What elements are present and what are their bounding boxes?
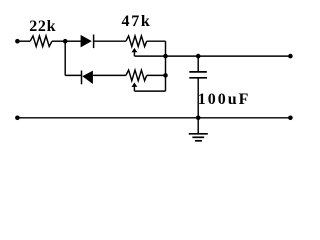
wire R2 wiper to node B xyxy=(134,55,165,57)
capacitor C1 top plate xyxy=(189,71,207,73)
wire node A down to lower branch xyxy=(64,41,66,75)
wire node D to C1 top plate xyxy=(197,56,199,72)
wire node A to D1 anode xyxy=(65,40,81,42)
potentiometer R3 47k body xyxy=(126,70,147,81)
wire C1 bottom plate to bottom rail xyxy=(197,78,199,118)
wire lower branch to D2 cathode xyxy=(65,74,81,76)
wire R3 right end to node C xyxy=(147,74,166,76)
svg-text:22k: 22k xyxy=(29,18,56,35)
wire D2 to R3 xyxy=(93,74,126,76)
wire D1 to R2 xyxy=(93,40,126,42)
diode D2 (points left) xyxy=(82,71,93,84)
diode D2 cathode bar (points left) xyxy=(81,71,83,85)
potentiometer R2 wiper stem xyxy=(133,51,135,56)
wire R3 wiper return xyxy=(134,90,165,92)
node output terminal top-right xyxy=(288,54,293,59)
node bottom-left terminal xyxy=(15,116,20,121)
node input terminal top-left xyxy=(15,39,20,44)
resistor R1 22k xyxy=(30,36,52,47)
potentiometer R3 wiper stem xyxy=(133,86,135,91)
diode D1 cathode bar xyxy=(93,35,95,49)
wire R1 to node A xyxy=(52,40,65,42)
wire bottom rail xyxy=(17,117,290,119)
ground bar 2 xyxy=(192,136,204,138)
ground bar 3 xyxy=(195,140,202,142)
capacitor C1 bottom plate xyxy=(189,77,207,79)
svg-text:47k: 47k xyxy=(122,13,152,30)
wire ground stem xyxy=(197,118,199,134)
diode D1 (points right) xyxy=(81,35,92,48)
wire output line node B to output terminal xyxy=(166,55,291,57)
node E ground junction xyxy=(196,116,201,121)
node A junction xyxy=(63,39,68,44)
potentiometer R2 wiper arrowhead xyxy=(132,48,138,52)
potentiometer R2 47k body xyxy=(126,36,147,47)
node B junction xyxy=(163,54,168,59)
svg-text:100uF: 100uF xyxy=(198,91,251,108)
wire R2 right end xyxy=(147,40,166,42)
potentiometer R3 wiper arrowhead xyxy=(132,83,138,87)
ground bar 1 xyxy=(189,133,208,135)
wire right vertical bus xyxy=(165,41,167,91)
wire input to R1 xyxy=(17,40,30,42)
node D capacitor top junction xyxy=(196,54,201,59)
node C junction xyxy=(163,73,168,78)
node bottom-right terminal xyxy=(288,116,293,121)
